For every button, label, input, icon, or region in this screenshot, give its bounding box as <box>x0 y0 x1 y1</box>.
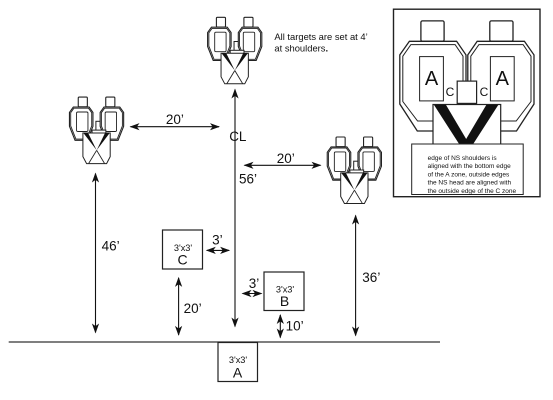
inset target right A zone <box>490 57 514 101</box>
target group left <box>69 97 123 164</box>
target group center <box>208 17 262 84</box>
inset target right head <box>490 21 513 41</box>
box B <box>264 272 304 311</box>
svg-text:46’: 46’ <box>102 239 120 254</box>
svg-text:edge of NS shoulders is: edge of NS shoulders is <box>428 155 498 162</box>
ground / fault line <box>9 341 440 343</box>
box A <box>218 343 258 382</box>
svg-text:of the A zone, outside edges: of the A zone, outside edges <box>428 171 510 178</box>
inset target left A zone <box>420 57 444 101</box>
svg-text:the NS head are aligned with: the NS head are aligned with <box>428 180 512 187</box>
inset target left head <box>421 21 444 41</box>
arrow 3 ft right of box C <box>207 249 229 251</box>
arrow 10 ft below box B <box>279 315 281 338</box>
svg-text:CL: CL <box>229 129 247 144</box>
arrow 20 ft below box C <box>178 278 180 335</box>
centerline arrow 56 ft <box>234 90 236 327</box>
svg-text:aligned with the bottom edge: aligned with the bottom edge <box>428 163 511 170</box>
svg-text:the outside edge of the C zone: the outside edge of the C zone <box>428 188 517 195</box>
box C <box>163 230 203 269</box>
svg-text:C: C <box>446 85 455 99</box>
inset target right body <box>468 41 534 131</box>
inset target right C zone <box>471 45 531 121</box>
arrow 46 ft <box>95 174 97 333</box>
svg-text:A: A <box>496 68 510 90</box>
target group right <box>327 137 381 204</box>
svg-text:C: C <box>177 252 187 268</box>
svg-text:3’: 3’ <box>249 276 260 291</box>
inset band right <box>461 105 499 148</box>
inset note box <box>412 144 524 195</box>
svg-text:3'x3': 3'x3' <box>229 355 248 365</box>
svg-text:20’: 20’ <box>277 151 295 166</box>
inset band left <box>434 105 472 148</box>
arrow 20 ft horizontal right <box>245 164 321 166</box>
inset frame <box>394 9 541 197</box>
inset no-shoot head <box>457 81 476 103</box>
svg-text:C: C <box>480 85 489 99</box>
arrow 36 ft <box>355 216 357 336</box>
svg-text:A: A <box>425 68 439 90</box>
svg-text:B: B <box>280 293 289 309</box>
arrow 3 ft left of box B <box>243 293 262 295</box>
inset target left C zone <box>403 45 463 121</box>
arrow 20 ft horizontal left <box>131 126 220 128</box>
inset target left body <box>400 41 466 131</box>
svg-text:20’: 20’ <box>184 301 202 316</box>
svg-text:36’: 36’ <box>362 270 380 285</box>
svg-text:All targets are set at 4’: All targets are set at 4’ <box>274 31 367 42</box>
svg-text:56’: 56’ <box>239 171 257 186</box>
svg-text:20’: 20’ <box>166 112 184 127</box>
svg-text:A: A <box>233 365 243 381</box>
svg-text:3’: 3’ <box>212 233 223 248</box>
svg-text:10’: 10’ <box>286 319 304 334</box>
svg-text:at shoulders.: at shoulders. <box>274 43 328 54</box>
inset no-shoot body <box>433 105 501 148</box>
